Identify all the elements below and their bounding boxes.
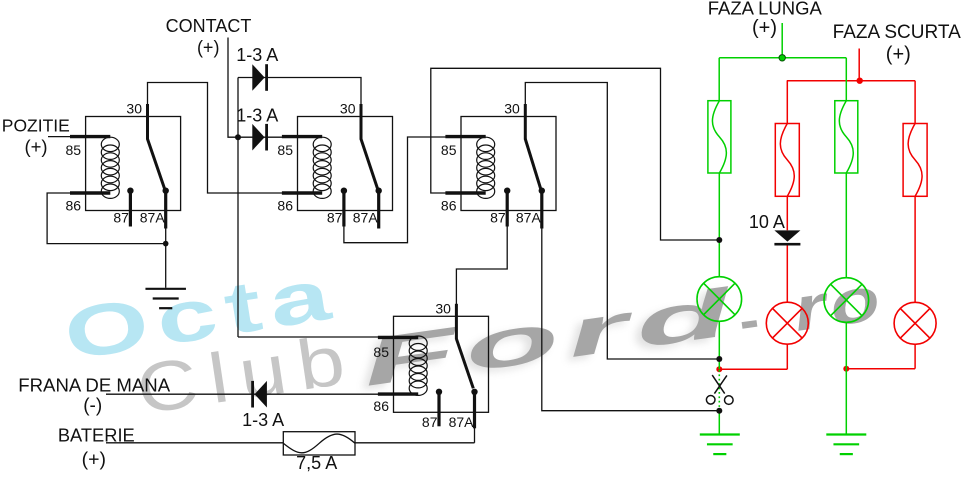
svg-text:87: 87 [422, 414, 438, 430]
svg-text:(+): (+) [82, 449, 106, 471]
svg-text:86: 86 [66, 198, 82, 214]
svg-text:87A: 87A [516, 209, 542, 225]
svg-text:CONTACT: CONTACT [166, 16, 252, 36]
svg-text:BATERIE: BATERIE [58, 425, 135, 446]
svg-text:30: 30 [340, 100, 356, 116]
svg-text:87: 87 [113, 209, 129, 225]
svg-text:30: 30 [504, 100, 520, 116]
svg-text:(+): (+) [197, 38, 220, 58]
svg-text:87A: 87A [353, 209, 379, 225]
svg-text:POZITIE: POZITIE [2, 115, 70, 135]
svg-text:30: 30 [126, 100, 142, 116]
svg-text:FRANA DE MANA: FRANA DE MANA [18, 374, 170, 395]
svg-text:86: 86 [277, 198, 293, 214]
svg-text:85: 85 [373, 344, 389, 360]
svg-text:87: 87 [327, 209, 343, 225]
svg-text:1-3 A: 1-3 A [242, 410, 284, 430]
svg-text:30: 30 [435, 301, 451, 317]
svg-text:(+): (+) [886, 44, 911, 66]
svg-text:FAZA SCURTA: FAZA SCURTA [833, 22, 961, 43]
svg-text:(-): (-) [83, 396, 102, 417]
svg-text:1-3 A: 1-3 A [236, 106, 278, 126]
svg-text:85: 85 [441, 142, 457, 158]
svg-text:85: 85 [277, 142, 293, 158]
svg-text:ro: ro [789, 264, 889, 345]
svg-text:87: 87 [490, 209, 506, 225]
svg-text:(+): (+) [752, 17, 777, 39]
svg-text:1-3 A: 1-3 A [236, 45, 278, 65]
svg-text:86: 86 [441, 198, 457, 214]
svg-text:87A: 87A [449, 414, 475, 430]
svg-text:7,5 A: 7,5 A [296, 453, 337, 473]
svg-text:(+): (+) [24, 136, 47, 157]
svg-text:85: 85 [66, 142, 82, 158]
svg-text:87A: 87A [140, 209, 166, 225]
svg-text:10 A: 10 A [749, 212, 785, 232]
svg-text:86: 86 [373, 398, 389, 414]
